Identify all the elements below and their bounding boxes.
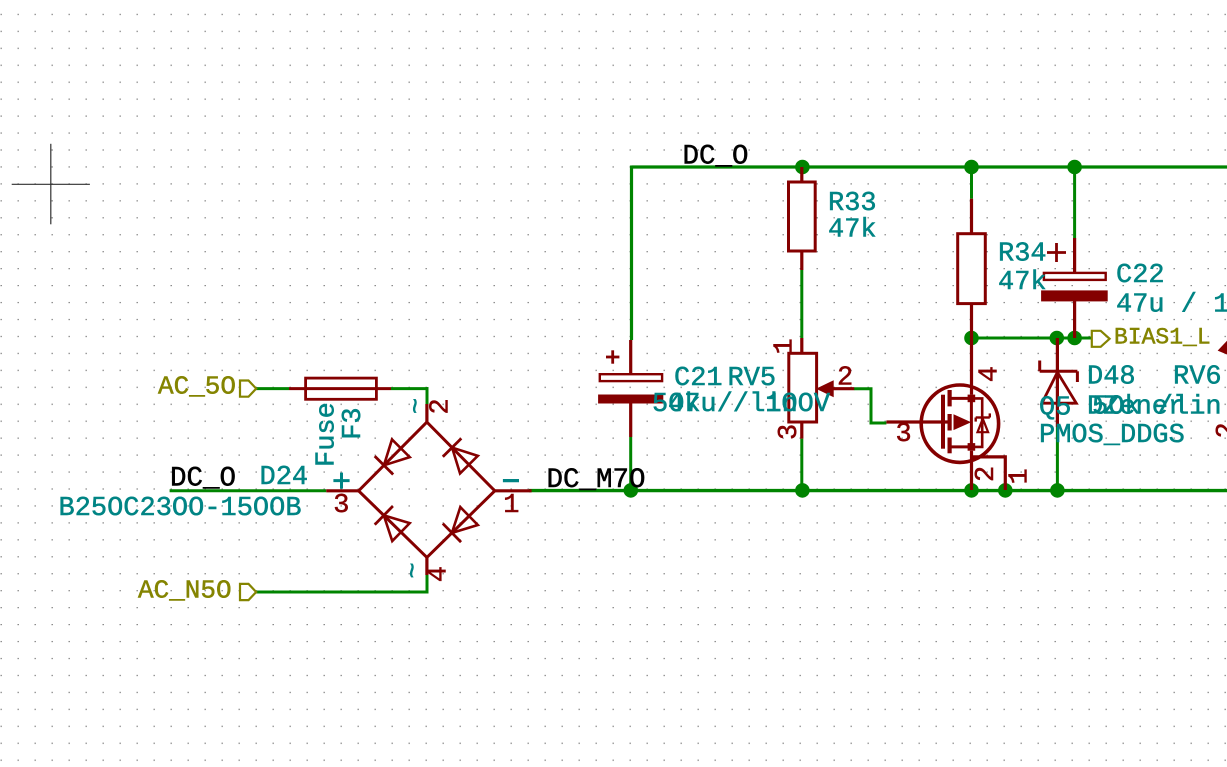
- bridge diode top-left: [375, 456, 393, 474]
- svg-text:AC_N5O: AC_N5O: [138, 576, 232, 606]
- fuse F3: [306, 378, 377, 399]
- wire top rail left drop: [630, 166, 633, 341]
- wire top rail to C22: [1073, 167, 1076, 238]
- svg-text:2: 2: [837, 364, 853, 394]
- wire C21 to bottom rail: [629, 437, 632, 490]
- svg-text:Q5: Q5: [1039, 394, 1071, 424]
- C21 plus mark: [606, 356, 619, 359]
- svg-text:3: 3: [775, 424, 805, 440]
- wire RV5 wiper to Q5 gate: [854, 389, 886, 423]
- bridge minus mark: [503, 479, 519, 482]
- zener diode D48: [1056, 338, 1059, 427]
- capacitor C21: [629, 340, 632, 374]
- svg-text:D48: D48: [1087, 363, 1136, 393]
- diode bridge D24 body: [359, 422, 495, 557]
- svg-text:1: 1: [503, 491, 519, 521]
- svg-text:47k: 47k: [828, 216, 877, 246]
- svg-text:DC_M7O: DC_M7O: [547, 465, 646, 496]
- Q5 internal vertical: [970, 398, 973, 447]
- resistor R33: [800, 167, 803, 182]
- junction: [964, 331, 979, 346]
- junction: [624, 483, 639, 498]
- Q5 internal node bottom: [950, 445, 972, 448]
- Q5 channel arrow: [954, 415, 970, 429]
- junction: [1067, 331, 1082, 346]
- Q5 channel dashes: [947, 390, 951, 406]
- bridge pin 3: [326, 489, 358, 492]
- global label arrow AC_N50: [240, 584, 256, 600]
- junction: [1067, 160, 1082, 175]
- svg-text:D24: D24: [260, 463, 309, 493]
- global label arrow BIAS1_L: [1092, 331, 1110, 347]
- svg-text:C22: C22: [1116, 261, 1165, 291]
- Q5 pin 2: [970, 451, 973, 490]
- resistor R34: [970, 199, 973, 234]
- bridge pin 2: [425, 404, 428, 422]
- global label arrow AC_50: [240, 381, 256, 397]
- bridge plus mark: [333, 479, 349, 482]
- junction: [795, 160, 810, 175]
- wire mid rail: [972, 337, 1092, 340]
- svg-text:RV6: RV6: [1173, 363, 1222, 393]
- svg-text:DC_O: DC_O: [683, 141, 749, 172]
- wire R33 to RV5: [800, 270, 803, 338]
- svg-text:47k: 47k: [998, 268, 1047, 298]
- bridge pin 1: [495, 489, 532, 492]
- RV5 wiper arrow: [817, 381, 833, 397]
- junction: [795, 483, 810, 498]
- wire DC_0 to bridge pin3: [170, 489, 327, 492]
- wire AC_N50 to bridge: [256, 591, 429, 594]
- svg-text:47u / 1OOV: 47u / 1OOV: [668, 390, 831, 420]
- svg-text:3: 3: [896, 420, 912, 450]
- svg-text:F3: F3: [339, 407, 369, 439]
- svg-text:~: ~: [403, 398, 433, 414]
- junction: [964, 483, 979, 498]
- svg-text:R34: R34: [998, 240, 1047, 270]
- potentiometer RV5: [800, 338, 803, 353]
- wire fuse to bridge corner: [391, 387, 429, 390]
- Q5 pin 4: [970, 338, 973, 395]
- bridge diode bottom-right: [443, 524, 461, 543]
- svg-text:PMOS_DDGS: PMOS_DDGS: [1039, 421, 1185, 451]
- svg-text:DC_O: DC_O: [170, 464, 236, 495]
- wire D48 to bottom rail: [1056, 427, 1059, 490]
- Q5 body diode branch: [971, 398, 982, 447]
- wire bottom rail: [529, 489, 1227, 492]
- bridge pin 4: [425, 557, 428, 575]
- svg-text:Fuse: Fuse: [313, 402, 343, 467]
- Q5 gate bar: [941, 395, 945, 449]
- svg-text:R33: R33: [828, 189, 877, 219]
- wire top rail: [632, 165, 1227, 168]
- Q5 internal node top: [950, 397, 972, 400]
- svg-text:2: 2: [972, 466, 1002, 482]
- svg-text:2: 2: [1213, 422, 1227, 438]
- svg-text:1: 1: [1006, 468, 1036, 484]
- RV6 wiper arrow (clipped): [1219, 342, 1227, 355]
- transistor Q5 body: [921, 385, 998, 462]
- bridge diode top-right: [443, 438, 461, 456]
- svg-text:~: ~: [400, 562, 430, 578]
- svg-text:BIAS1_L: BIAS1_L: [1114, 325, 1211, 351]
- wire AC_50 to fuse: [256, 387, 289, 390]
- svg-text:3: 3: [333, 491, 349, 521]
- svg-text:B25OC23OO-15OOB: B25OC23OO-15OOB: [59, 494, 302, 524]
- wire RV5 to bottom rail: [800, 439, 803, 490]
- Q5 body diode symbol: [976, 416, 990, 418]
- junction: [998, 483, 1013, 498]
- wire top rail to R34: [970, 167, 973, 199]
- Q5 pin 1: [972, 457, 1006, 490]
- sheet origin crosshair: [12, 183, 90, 185]
- svg-text:4: 4: [976, 366, 1006, 382]
- svg-text:AC_5O: AC_5O: [158, 372, 236, 402]
- svg-text:5Ok /lin: 5Ok /lin: [1092, 393, 1222, 423]
- Q5 gate pin: [886, 420, 949, 423]
- capacitor C22: [1073, 238, 1076, 273]
- svg-text:47u / 1OO: 47u / 1OO: [1116, 291, 1227, 321]
- bridge diode bottom-left: [375, 506, 393, 525]
- junction: [964, 160, 979, 175]
- junction: [1050, 483, 1065, 498]
- C22 plus mark: [1047, 251, 1066, 254]
- junction: [1050, 331, 1065, 346]
- svg-text:1: 1: [771, 338, 801, 354]
